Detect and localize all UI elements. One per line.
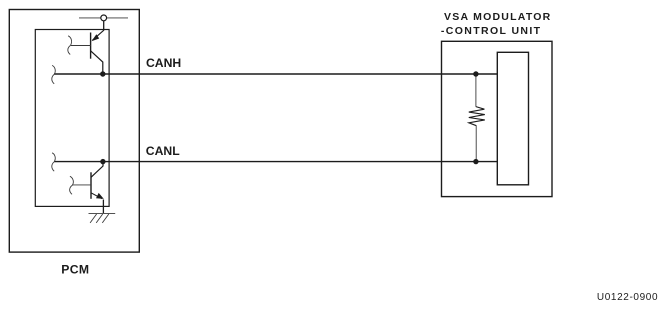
CANL wire (54, 161, 497, 163)
power terminal circle (101, 15, 107, 21)
Q1 base break squiggle (68, 36, 72, 55)
wire: resistor top lead (475, 74, 477, 107)
svg-text:PCM: PCM (61, 263, 89, 277)
wire: resistor bottom lead (475, 126, 477, 162)
Q2 base break squiggle (70, 176, 74, 194)
wire: Q2 emitter to ground (102, 200, 104, 214)
node: CANL junction at VSA (473, 159, 478, 164)
svg-text:CANL: CANL (146, 144, 180, 158)
CANL break squiggle (52, 153, 55, 171)
wire: circle to Q1 emitter (103, 21, 105, 31)
PCM inner box (35, 30, 109, 207)
VSA MODULATOR-CONTROL UNIT box (442, 41, 553, 196)
PCM outer box (9, 10, 139, 253)
node: CANL junction at PCM (100, 159, 105, 164)
transistor Q2 (NPN, low-side driver) (91, 162, 104, 199)
Q2 base wire (73, 184, 92, 186)
power rail wire (79, 17, 128, 19)
svg-text:VSA MODULATOR: VSA MODULATOR (444, 11, 552, 23)
node: CANH junction at PCM (100, 71, 105, 76)
CANH wire (54, 73, 497, 75)
connector inner rect (497, 52, 528, 185)
svg-text:U0122-0900: U0122-0900 (597, 292, 658, 303)
ground (chassis) (89, 213, 116, 223)
CANH break squiggle (52, 65, 55, 83)
transistor Q1 (PNP, high-side driver) (91, 30, 104, 74)
Q1 base wire (71, 45, 91, 47)
svg-text:CANH: CANH (146, 56, 181, 70)
node: CANH junction at VSA (473, 71, 478, 76)
svg-text:-CONTROL UNIT: -CONTROL UNIT (441, 25, 542, 37)
resistor R (CAN termination) (469, 107, 485, 126)
